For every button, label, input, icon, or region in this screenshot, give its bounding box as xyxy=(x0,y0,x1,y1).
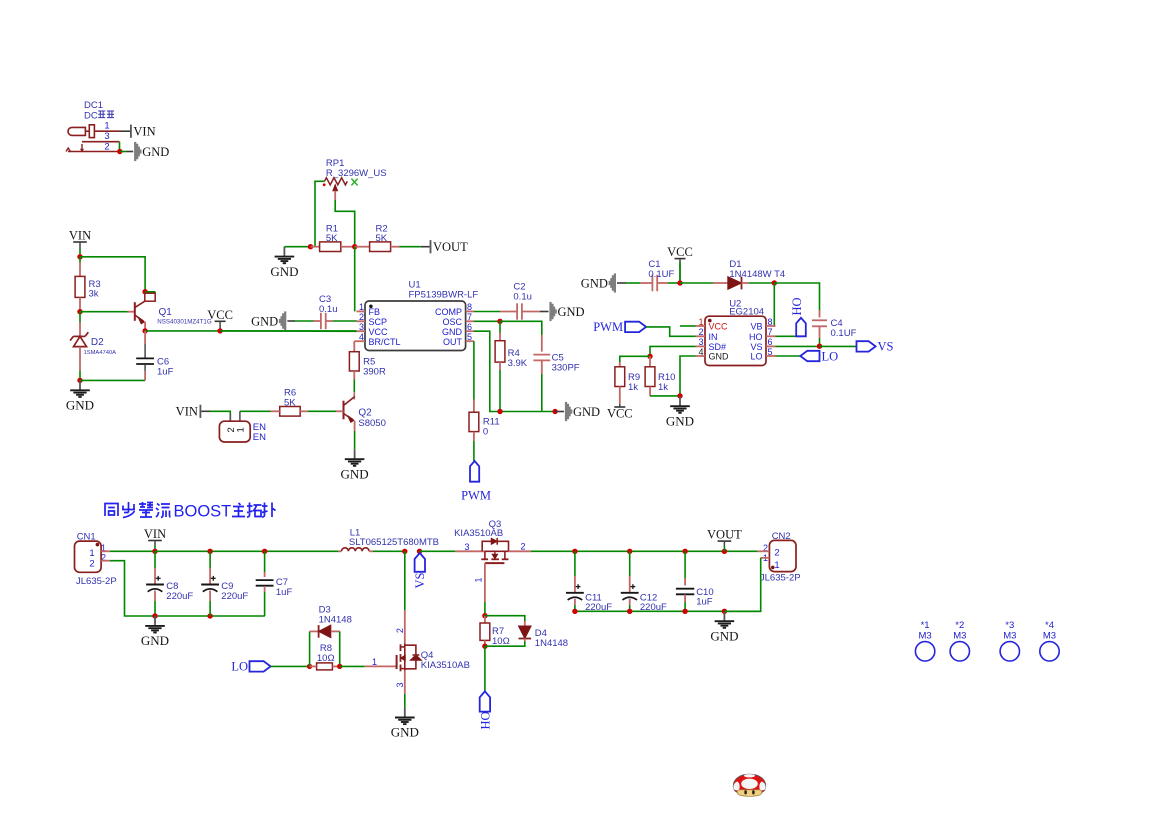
wire U2 pin1 to VCC rail xyxy=(680,325,696,327)
svg-text:GND: GND xyxy=(709,352,730,362)
wire U2 pin4 GND down xyxy=(680,356,696,396)
svg-text:COMP: COMP xyxy=(435,307,462,317)
svg-text:FP5139BWR-LF: FP5139BWR-LF xyxy=(409,289,479,300)
svg-text:VCC: VCC xyxy=(207,308,233,322)
wire R5 to Q2 collector xyxy=(353,380,355,393)
svg-text:2: 2 xyxy=(395,628,405,633)
junction VIN bottom xyxy=(152,549,157,554)
svg-text:VB: VB xyxy=(750,322,762,332)
net flag PWM below R11 xyxy=(470,461,479,482)
resistor R10 1k xyxy=(649,356,651,367)
net flag VS right xyxy=(857,341,876,351)
svg-text:GND: GND xyxy=(710,628,738,643)
wire CN1 pin1 to VIN rail xyxy=(110,550,155,552)
junction Q4 drain node xyxy=(402,549,407,554)
wire GND to R1 xyxy=(284,246,310,248)
port GND at C2 xyxy=(549,302,551,321)
wire R10 to GND junction xyxy=(650,395,680,397)
U2 pin 4 GND xyxy=(696,355,706,357)
svg-text:GND: GND xyxy=(391,725,419,740)
U1 pin 3 VCC xyxy=(357,330,366,332)
ground GND left of R1 xyxy=(283,247,285,257)
svg-text:OSC: OSC xyxy=(442,317,462,327)
wire R6 to Q2 base xyxy=(308,410,336,412)
port VOUT xyxy=(430,240,432,253)
wire pin3 down to pin2 node xyxy=(119,142,121,152)
wire wiper to divider mid xyxy=(335,200,355,247)
svg-text:Q1: Q1 xyxy=(159,307,173,318)
svg-text:LO: LO xyxy=(231,660,248,674)
U1 pin 1 FB xyxy=(357,310,366,312)
wire pin1 to VIN port xyxy=(120,130,131,132)
wire VB node to C4 xyxy=(774,283,819,310)
svg-text:330PF: 330PF xyxy=(552,362,580,373)
junction C10 bottom xyxy=(682,609,687,614)
svg-text:3: 3 xyxy=(359,322,364,332)
junction VS node xyxy=(817,344,822,349)
wire rail to Q3 source xyxy=(420,550,456,552)
RP1 wiper arrow xyxy=(333,185,338,191)
resistor R3 3k xyxy=(79,263,81,277)
capacitor C10 1uF xyxy=(684,551,686,578)
resistor R5 390R xyxy=(354,340,356,342)
diode D3 1N4148 xyxy=(309,631,311,666)
svg-text:PWM: PWM xyxy=(593,320,623,334)
svg-text:GND: GND xyxy=(573,405,600,419)
junction GND rail end xyxy=(552,409,557,414)
wire D2 to bottom rail xyxy=(79,371,81,380)
U1 pin 8 COMP xyxy=(466,310,474,312)
svg-text:0.1u: 0.1u xyxy=(319,304,338,315)
svg-text:HO: HO xyxy=(749,332,763,342)
svg-text:3: 3 xyxy=(395,682,405,687)
svg-text:KIA3510AB: KIA3510AB xyxy=(421,660,470,671)
junction C9 bottom xyxy=(207,613,212,618)
svg-text:4: 4 xyxy=(698,347,703,357)
svg-text:GND: GND xyxy=(66,398,94,413)
svg-text:KIA3510AB: KIA3510AB xyxy=(454,528,503,539)
resistor R9 1k xyxy=(619,362,621,367)
net flag HO bottom xyxy=(480,691,490,711)
svg-text:VS: VS xyxy=(878,340,894,354)
DC1 switch contact xyxy=(81,144,83,150)
main input rail xyxy=(155,550,339,552)
svg-text:D2: D2 xyxy=(91,337,104,348)
port GND at C3 xyxy=(284,311,286,330)
resistor R8 10Ω xyxy=(317,663,333,670)
resistor R1 5K xyxy=(311,246,320,248)
junction C12 bottom xyxy=(627,609,632,614)
svg-text:390R: 390R xyxy=(363,366,386,377)
port GND below C5 xyxy=(565,402,567,421)
wire C2 to GND port xyxy=(540,311,549,313)
svg-text:GND: GND xyxy=(270,264,298,279)
wire R7 bottom to HO flag xyxy=(484,646,486,691)
zener diode D2 1SMA4740A xyxy=(79,322,81,336)
junction VOUT stem xyxy=(722,549,727,554)
svg-text:3: 3 xyxy=(698,337,703,347)
resistor R2 5K xyxy=(355,246,370,248)
net flag VCC above C1 xyxy=(675,258,686,260)
svg-text:VOUT: VOUT xyxy=(707,528,742,542)
wire VCC to C1 rail xyxy=(679,262,681,283)
svg-text:5: 5 xyxy=(768,347,773,357)
svg-text:PWM: PWM xyxy=(461,489,491,503)
svg-text:SLT065125T680MTB: SLT065125T680MTB xyxy=(349,537,439,548)
svg-text:GND: GND xyxy=(442,327,463,337)
junction R7 top xyxy=(482,613,487,618)
resistor R7 10Ω xyxy=(484,616,486,623)
port GND at DC1 xyxy=(134,142,136,161)
output bottom rail xyxy=(575,610,761,612)
junction VCC stem xyxy=(217,328,222,333)
svg-text:220uF: 220uF xyxy=(166,591,193,602)
wire VIN port to EN pin2 xyxy=(210,411,230,421)
capacitor C6 1uF xyxy=(144,331,146,344)
svg-text:1: 1 xyxy=(698,317,703,327)
svg-text:5K: 5K xyxy=(376,233,388,244)
svg-text:S8050: S8050 xyxy=(358,418,385,429)
port VIN xyxy=(130,125,132,138)
svg-text:8: 8 xyxy=(467,302,472,312)
svg-text:IN: IN xyxy=(709,332,718,342)
svg-text:SCP: SCP xyxy=(369,317,388,327)
wire Q4 source to GND xyxy=(404,671,406,694)
connector EN jumper xyxy=(219,421,250,442)
svg-text:DC: DC xyxy=(84,111,98,122)
svg-text:0.1u: 0.1u xyxy=(513,292,532,303)
svg-text:EN: EN xyxy=(253,432,266,443)
svg-text:7: 7 xyxy=(768,327,773,337)
junction R3 bottom / Q1 base xyxy=(77,309,82,314)
svg-text:3: 3 xyxy=(465,542,470,552)
junction C11 top xyxy=(572,549,577,554)
svg-text:2: 2 xyxy=(521,542,526,552)
U2 pin 6 VS xyxy=(766,345,776,347)
svg-text:LO: LO xyxy=(750,352,762,362)
wire PWM to U2 pin2 xyxy=(646,327,695,336)
svg-text:JL635-2P: JL635-2P xyxy=(76,576,117,587)
svg-text:3.9K: 3.9K xyxy=(508,358,528,369)
svg-text:0.1UF: 0.1UF xyxy=(648,269,674,280)
net flag LO bottom xyxy=(250,661,271,671)
wire LO to R8 node xyxy=(271,665,310,667)
svg-text:VCC: VCC xyxy=(667,245,693,259)
wire C3 to U1 SCP xyxy=(333,320,357,322)
svg-text:VS: VS xyxy=(750,342,762,352)
wire U1 GND pin6 down xyxy=(474,331,555,411)
wire EN pin1 up xyxy=(239,411,241,421)
wire base node down to D2 xyxy=(79,312,81,322)
capacitor C7 1uF xyxy=(264,551,266,572)
svg-text:7: 7 xyxy=(467,312,472,322)
wire L1 to Q3 xyxy=(373,550,405,552)
svg-text:2: 2 xyxy=(359,312,364,322)
U1 pin 4 BR/CTL xyxy=(357,340,366,342)
svg-text:6: 6 xyxy=(768,337,773,347)
svg-text:1: 1 xyxy=(236,427,247,432)
net flag VIN top-left xyxy=(73,241,87,243)
wire R2 to VOUT port xyxy=(400,246,421,248)
junction D2 bottom xyxy=(77,378,82,383)
wire RP1 left terminal down xyxy=(311,181,325,246)
net flag HO at U2 pin7 xyxy=(776,335,801,337)
no-connect X on RP1 xyxy=(351,179,357,186)
wire bottom rail to C6 xyxy=(80,379,145,381)
svg-text:4: 4 xyxy=(359,332,364,342)
svg-text:VS: VS xyxy=(413,572,427,588)
U1 pin 2 SCP xyxy=(357,320,366,322)
junction C1 / VCC / U2 pin1 xyxy=(677,280,682,285)
net flag VS on rail xyxy=(417,549,422,554)
svg-text:2: 2 xyxy=(698,327,703,337)
wire SD# node to R9 xyxy=(620,356,650,362)
ground GND below Q2 xyxy=(354,449,356,459)
svg-text:8: 8 xyxy=(768,317,773,327)
junction GND U2 xyxy=(677,393,682,398)
wire OSC node to C5 xyxy=(500,321,542,335)
svg-text:VCC: VCC xyxy=(607,407,633,421)
junction DC1 pin2-pin3 xyxy=(117,149,122,154)
capacitor C11 220uF xyxy=(574,551,576,576)
wire EN to R6 xyxy=(240,410,271,412)
wire VCC node to U1 VCC pin3 xyxy=(220,330,356,332)
svg-text:1: 1 xyxy=(89,548,94,559)
svg-text:5: 5 xyxy=(467,332,472,342)
ground GND below C8 xyxy=(154,616,156,626)
svg-text:1uF: 1uF xyxy=(696,597,713,608)
ground GND output xyxy=(723,611,725,621)
junction R8 right xyxy=(337,664,342,669)
svg-text:GND: GND xyxy=(142,145,169,159)
junction C10 top xyxy=(682,549,687,554)
svg-text:M3: M3 xyxy=(953,631,966,642)
capacitor C12 220uF xyxy=(629,551,631,576)
wire R11 to PWM flag xyxy=(473,441,475,461)
svg-text:1N4148: 1N4148 xyxy=(319,614,352,625)
junction C7 top xyxy=(262,549,267,554)
output rail xyxy=(575,550,758,552)
capacitor C4 0.1UF xyxy=(819,310,821,317)
svg-text:BOOST: BOOST xyxy=(174,503,232,521)
svg-text:GND: GND xyxy=(558,305,585,319)
svg-text:HO: HO xyxy=(479,711,493,729)
svg-text:GND: GND xyxy=(341,466,369,481)
svg-text:10Ω: 10Ω xyxy=(317,653,335,664)
svg-text:NSS40301MZ4T1G: NSS40301MZ4T1G xyxy=(157,319,212,326)
svg-text:VOUT: VOUT xyxy=(433,240,468,254)
svg-text:1uF: 1uF xyxy=(276,587,293,598)
U2 pin 2 IN xyxy=(696,335,706,337)
net flag VCC near Q1 xyxy=(215,320,226,322)
wire VCC node xyxy=(145,330,356,332)
svg-text:1: 1 xyxy=(359,302,364,312)
wire Q3 gate down xyxy=(484,577,486,602)
svg-text:1N4148W T4: 1N4148W T4 xyxy=(729,269,785,280)
U2 pin 7 HO xyxy=(766,335,776,337)
port VIN at EN xyxy=(200,405,202,418)
svg-text:GND: GND xyxy=(666,413,694,428)
wire U2 pin6 VS xyxy=(776,345,820,347)
svg-text:2: 2 xyxy=(89,559,94,570)
svg-text:VCC: VCC xyxy=(709,322,729,332)
svg-text:220uF: 220uF xyxy=(221,591,248,602)
U1 pin 5 OUT xyxy=(466,340,474,342)
wire U1 OUT pin5 down to R11 xyxy=(473,341,475,399)
svg-text:1: 1 xyxy=(774,560,779,571)
capacitor C1 0.1UF xyxy=(626,282,640,284)
port GND at C1 xyxy=(614,273,616,292)
svg-text:BR/CTL: BR/CTL xyxy=(369,337,401,347)
wire base node to Q1 xyxy=(80,311,128,313)
resistor R11 0 xyxy=(473,400,475,413)
U1 pin 7 OSC xyxy=(466,320,474,322)
junction C12 top xyxy=(627,549,632,554)
capacitor C2 0.1u xyxy=(474,311,500,313)
capacitor C3 0.1u xyxy=(295,320,314,322)
net flag PWM into U2 IN xyxy=(625,322,646,332)
wire CN1 pin2 to bottom rail xyxy=(110,561,265,616)
capacitor C5 330PF xyxy=(541,335,543,352)
junction Q1 emitter / VCC node xyxy=(142,328,147,333)
ground GND below Q4 xyxy=(404,708,406,718)
svg-text:VIN: VIN xyxy=(133,125,155,139)
svg-text:M3: M3 xyxy=(1003,631,1016,642)
svg-text:1: 1 xyxy=(372,657,377,667)
svg-text:DC1: DC1 xyxy=(84,100,103,111)
svg-text:OUT: OUT xyxy=(443,337,463,347)
svg-text:2: 2 xyxy=(774,548,779,559)
svg-text:GND: GND xyxy=(141,633,169,648)
wire Q2 emitter to GND xyxy=(354,431,356,449)
wire CN2 pin1 to bottom rail xyxy=(724,558,760,612)
svg-text:1k: 1k xyxy=(628,382,638,393)
U2 pin 1 VCC xyxy=(696,325,706,327)
junction R7 bottom xyxy=(482,644,487,649)
svg-text:M3: M3 xyxy=(918,631,931,642)
U2 pin 3 SD# xyxy=(696,345,706,347)
junction GND output xyxy=(722,609,727,614)
wire U2 pin3 SD# xyxy=(650,346,696,356)
junction R4 bottom xyxy=(497,409,502,414)
svg-text:1: 1 xyxy=(473,577,483,582)
svg-text:6: 6 xyxy=(467,322,472,332)
wire to GND port xyxy=(555,411,564,413)
svg-text:FB: FB xyxy=(369,307,381,317)
diode D4 1N4148 xyxy=(485,616,525,621)
junction VIN rail xyxy=(77,254,82,259)
wire D1 to VB node xyxy=(749,282,774,284)
wire VIN to rail xyxy=(79,249,81,257)
junction C9 top xyxy=(207,549,212,554)
junction VB node xyxy=(772,280,777,285)
capacitor C8 220uF xyxy=(154,551,156,568)
svg-text:Q2: Q2 xyxy=(358,408,372,419)
svg-text:LO: LO xyxy=(822,349,839,363)
net flag VOUT xyxy=(718,540,732,542)
junction C11 bottom xyxy=(572,609,577,614)
svg-text:GND: GND xyxy=(581,277,608,291)
junction R8 left xyxy=(307,664,312,669)
svg-text:1: 1 xyxy=(104,121,109,132)
svg-text:0.1UF: 0.1UF xyxy=(831,328,857,339)
wire VIN rail to Q1 collector branch xyxy=(80,257,145,292)
svg-text:R_3296W_US: R_3296W_US xyxy=(326,168,387,179)
svg-text:VIN: VIN xyxy=(176,405,198,419)
ground GND below U2 xyxy=(679,396,681,406)
svg-text:GND: GND xyxy=(251,315,278,329)
svg-text:M3: M3 xyxy=(1043,631,1056,642)
svg-text:1SMA4740A: 1SMA4740A xyxy=(84,350,117,356)
junction C8 bottom xyxy=(152,613,157,618)
svg-text:1uF: 1uF xyxy=(157,367,174,378)
svg-text:VIN: VIN xyxy=(69,229,91,243)
svg-text:5K: 5K xyxy=(326,233,338,244)
transistor Q2 S8050 xyxy=(343,401,345,420)
wire VIN down to R3 xyxy=(79,257,81,263)
diode D1 1N4148W T4 xyxy=(680,282,713,284)
svg-text:VCC: VCC xyxy=(369,327,389,337)
junction divider mid xyxy=(352,244,357,249)
wire junction to GND port xyxy=(120,151,127,153)
net flag VCC below R9 xyxy=(619,404,621,407)
U2 pin 8 VB xyxy=(766,325,776,327)
resistor R4 3.9K xyxy=(499,321,501,333)
svg-text:2: 2 xyxy=(104,141,109,152)
capacitor C9 220uF xyxy=(209,551,211,568)
svg-text:SD#: SD# xyxy=(709,342,727,352)
junction R1 left xyxy=(308,244,313,249)
title 同步整流BOOST主拓扑 (CJK drawn) xyxy=(105,504,118,517)
svg-text:JL635-2P: JL635-2P xyxy=(760,573,801,584)
wire R8 to Q4 gate xyxy=(340,665,365,667)
svg-text:3k: 3k xyxy=(89,289,99,300)
wire VB node down to U2 pin8 xyxy=(773,283,775,326)
junction SD# node xyxy=(647,354,652,359)
ground GND below D2 xyxy=(79,380,81,390)
wire divider mid down to U1 FB xyxy=(354,247,356,312)
svg-text:HO: HO xyxy=(790,297,804,315)
svg-text:0: 0 xyxy=(483,426,488,437)
junction OSC node xyxy=(497,319,502,324)
wire VS node to flag xyxy=(820,345,857,347)
transistor Q1 NSS40301MZ4T1G xyxy=(142,289,147,294)
U2 pin 5 LO xyxy=(766,355,776,357)
svg-text:1k: 1k xyxy=(658,382,668,393)
U1 pin 6 GND xyxy=(466,330,474,332)
net flag LO at U2 pin5 xyxy=(776,355,801,357)
wire U1 OSC to R4 junction xyxy=(474,320,500,322)
svg-text:VIN: VIN xyxy=(144,527,166,541)
svg-text:10Ω: 10Ω xyxy=(492,636,510,647)
mushroom logo xyxy=(733,774,765,796)
svg-text:1N4148: 1N4148 xyxy=(535,638,568,649)
net flag VIN bottom xyxy=(148,540,162,542)
